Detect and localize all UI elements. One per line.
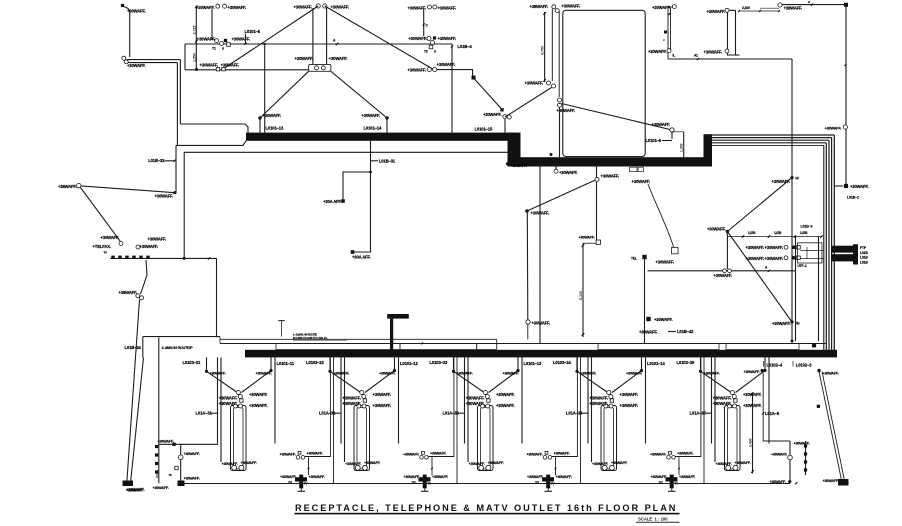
svg-text:+30WAFF.: +30WAFF.	[714, 273, 733, 278]
svg-text:L0101–6: L0101–6	[646, 138, 662, 143]
wire: fan line apex down to pair on y271	[726, 232, 728, 270]
svg-text:TEL: TEL	[631, 257, 637, 261]
svg-text:L01B–3: L01B–3	[801, 225, 813, 229]
junction square x846 y4.8	[844, 3, 848, 7]
svg-text:2,100: 2,100	[742, 6, 750, 10]
bay 5: left stub diagonal from wall	[700, 357, 702, 369]
svg-text:+30WAFF.: +30WAFF.	[648, 49, 667, 54]
svg-text:+30WAFF.: +30WAFF.	[744, 370, 761, 374]
svg-text:+30WAFF.: +30WAFF.	[184, 477, 201, 481]
bay 4: top outlet cluster circles	[607, 390, 611, 394]
outlet circle pair right end of T1 leg	[427, 67, 431, 71]
left panel ladder verticals	[158, 338, 160, 484]
svg-text:+30WAFF.: +30WAFF.	[704, 372, 721, 376]
svg-text:L01B–34: L01B–34	[125, 345, 142, 350]
wall D: multi-line vertical x824-834.5 y135-354	[833, 135, 835, 352]
FTP riser block solid bars from wall x831-853	[831, 246, 853, 253]
svg-text:+30WAFF.: +30WAFF.	[466, 395, 485, 400]
svg-text:+30WAFF.: +30WAFF.	[652, 122, 671, 127]
Y1 outlet cluster on y44 line	[215, 39, 219, 43]
svg-text:1,050: 1,050	[800, 231, 808, 235]
outlet circle pair top x429-435 y7	[428, 5, 432, 9]
svg-text:+30WAFF.: +30WAFF.	[127, 63, 146, 68]
svg-text:+30WAFF.: +30WAFF.	[249, 403, 268, 408]
wire: horizontal y145.4 from band A bottom to x176	[176, 141, 246, 146]
wire pair from left circles to verticals x177.4/180.4	[127, 59, 180, 61]
wall: bottom band E solid x245-837	[245, 350, 837, 358]
svg-text:+30WAFF.: +30WAFF.	[601, 174, 620, 179]
wire: left boundary vertical + slope	[142, 337, 144, 358]
svg-text:+30WAFF.: +30WAFF.	[232, 37, 251, 42]
tick A on y44 line	[336, 43, 339, 46]
svg-text:L0103–35: L0103–35	[677, 360, 695, 365]
svg-text:FF: FF	[796, 177, 800, 181]
gap 1: wire wall to baseline	[333, 357, 335, 483]
svg-text:+30WAFF.: +30WAFF.	[765, 245, 784, 250]
svg-text:TEL: TEL	[412, 481, 417, 485]
wire: T1 right leg apex to pair x429-434 y69.5	[325, 6, 434, 70]
dimension x752.5 y392-473 label 2400	[752, 392, 754, 473]
fan apex dot x727 y231.5	[726, 230, 729, 233]
outlet circle x672 y130	[670, 128, 674, 132]
wire: vertical pair from T1 apex to T2 box	[312, 8, 314, 64]
outlet circle x845 y127	[843, 125, 847, 129]
gap 2: L-wire from wall to circles	[429, 357, 454, 456]
svg-text:Y1: Y1	[212, 47, 216, 51]
svg-text:+30WAFF.: +30WAFF.	[525, 81, 544, 86]
svg-text:+30WAFF.: +30WAFF.	[620, 403, 639, 408]
wire: L to aircon outlet x343 y200	[343, 172, 371, 199]
wire: route line y336.6 x142-220	[143, 336, 220, 338]
svg-text:+30WAFF.: +30WAFF.	[404, 475, 421, 479]
svg-text:+30WAFF.: +30WAFF.	[532, 321, 551, 326]
svg-text:+30WAFF.: +30WAFF.	[823, 372, 840, 376]
telecom riser flag near x391 y315	[387, 314, 409, 319]
svg-text:+30WAFF.: +30WAFF.	[221, 62, 240, 67]
svg-text:+30WAFF.: +30WAFF.	[432, 475, 449, 479]
bay 4: room partition verticals	[587, 357, 589, 443]
svg-text:+30WAFF.: +30WAFF.	[511, 164, 528, 168]
svg-text:L01B–2: L01B–2	[847, 196, 859, 200]
wire: vertical x818.5 y236.5-341	[818, 237, 820, 342]
bay 3: bottom outlet circles	[479, 465, 484, 470]
svg-text:FTP: FTP	[860, 246, 867, 250]
bay 1: bottom outlet circles	[232, 465, 237, 470]
svg-text:+30WAFF.: +30WAFF.	[294, 5, 313, 10]
svg-text:+30WAFF.: +30WAFF.	[219, 395, 238, 400]
wire: horizontal net line y44 x185-452	[185, 43, 452, 45]
svg-text:+30WAFF.: +30WAFF.	[654, 317, 673, 322]
svg-text:UTP–1: UTP–1	[798, 264, 808, 268]
svg-text:L01B–42: L01B–42	[677, 329, 694, 334]
svg-text:4–8M/3 IN ROUTE/P: 4–8M/3 IN ROUTE/P	[162, 346, 194, 350]
svg-text:+30WAFF.: +30WAFF.	[559, 170, 578, 175]
gap 1: grounding tee below	[300, 488, 302, 491]
node B riser mark top-left	[121, 4, 124, 7]
svg-text:+30WAFF.: +30WAFF.	[554, 452, 571, 456]
Y2 outlet cluster	[427, 37, 431, 41]
wire: from pair right along y69.6 corner down to riser blob	[437, 70, 473, 76]
gap 4: outlet circle pair y457	[667, 456, 671, 460]
svg-text:+30WAFF.: +30WAFF.	[219, 401, 238, 406]
svg-text:+30WAFF.: +30WAFF.	[309, 475, 326, 479]
junction dot x527 y211 with diagonal to circle x597	[525, 209, 529, 213]
dimension x583 y243-337 label 5100	[583, 242, 596, 244]
gap 2: drop wire circles to TEL/TV	[431, 457, 433, 475]
svg-text:+30WAFF.: +30WAFF.	[527, 475, 544, 479]
outlet circle x79 y185.6	[77, 183, 81, 187]
bay 5: riser column double rectangle	[725, 406, 741, 471]
dimension x544.6 y12-82 label 4750	[544, 12, 546, 82]
svg-text:+30WAFF.: +30WAFF.	[746, 256, 765, 261]
wire: vertical x129.7 y11-57	[129, 11, 131, 57]
svg-text:+30WAFF.: +30WAFF.	[735, 461, 752, 465]
svg-text:+30WAFF.: +30WAFF.	[408, 68, 427, 73]
wire: long diagonal x139y298 to x126.5y483	[127, 300, 140, 483]
outlet circle pair triangle-1 apex	[316, 4, 320, 8]
svg-text:L0101–14: L0101–14	[647, 361, 665, 366]
svg-text:+30WAFF.: +30WAFF.	[295, 56, 314, 61]
svg-text:+30WAFF.: +30WAFF.	[153, 486, 170, 490]
wire: diagonal riser blob to junction x502 y110	[475, 79, 503, 110]
svg-text:+30WAFF.: +30WAFF.	[379, 372, 396, 376]
gap 3: wire wall to baseline	[580, 357, 582, 483]
outlet dot below band B x508	[506, 162, 509, 165]
junction square above band x814	[812, 343, 816, 347]
outlet circle below band B x556	[555, 167, 557, 170]
svg-text:+30WAFF.: +30WAFF.	[331, 5, 350, 10]
svg-text:L01B: L01B	[860, 260, 868, 264]
wire: vertical x763 y373-441 L to ladder	[763, 373, 790, 441]
right slope boundary diagonals	[817, 369, 820, 372]
TEL outlet square x644.5 y257	[642, 255, 646, 259]
svg-text:+30WAFF.: +30WAFF.	[713, 395, 732, 400]
svg-text:IN 2 IN/1 FLOOR TO 1 HR. FL.: IN 2 IN/1 FLOOR TO 1 HR. FL.	[293, 336, 328, 340]
svg-text:+30WAFF.: +30WAFF.	[639, 330, 658, 335]
bay 5: top outlet cluster circles	[730, 390, 734, 394]
svg-text:+30WAFF.: +30WAFF.	[364, 461, 381, 465]
gap 4: wire wall to baseline	[703, 357, 705, 483]
outlet circle x669 y50.7	[667, 49, 671, 53]
wire: T1 left leg apex to outlet pair at y69	[223, 6, 318, 69]
svg-text:+30WAFF.: +30WAFF.	[527, 452, 544, 456]
svg-text:+38WAFF.: +38WAFF.	[58, 184, 77, 189]
outlet circle pair top-left x218-225 y6	[216, 4, 220, 8]
wire: horizontal y59 x668-792	[668, 58, 792, 60]
svg-text:TEL: TEL	[288, 481, 293, 485]
wire: horizontal y124 into band A top	[180, 124, 248, 133]
svg-text:+30WAFF.: +30WAFF.	[626, 372, 643, 376]
outlet circle pair x548-553 y83-86	[547, 81, 551, 85]
svg-text:+30WAFF.: +30WAFF.	[140, 244, 159, 249]
right panel ladder	[789, 441, 791, 482]
wire: horizontal y270.8 x647.5-795.7	[648, 270, 796, 272]
left ladder squares	[155, 445, 158, 448]
svg-text:+30WAFF.: +30WAFF.	[707, 9, 726, 14]
wire: thin line y343.5 x220-826	[220, 343, 826, 345]
wire: vertical x370.5 band A to y172	[370, 141, 372, 172]
wire: shaft riser verticals x552.3 x559.2	[551, 9, 553, 81]
svg-text:+30WAFF.: +30WAFF.	[438, 6, 457, 11]
svg-text:+30WAFF.: +30WAFF.	[228, 5, 247, 10]
svg-text:+30WAFF.: +30WAFF.	[632, 179, 651, 184]
shaft room rectangle	[563, 10, 645, 156]
wire: vertical x527.5 down to lone circle	[526, 212, 529, 320]
outlet circle pair x559.5 y100-106	[558, 98, 562, 102]
riser bracket x727-736 y10-55	[728, 10, 736, 55]
svg-text:L01B–32: L01B–32	[148, 158, 165, 163]
wire: vertical x846 y5-184	[845, 5, 847, 184]
bay 2: right stub diagonal from wall	[394, 357, 396, 369]
tick on room line x422	[421, 342, 423, 344]
bay 4: right stub diagonal from wall	[641, 357, 643, 369]
wire: shallow diagonal to x174 dot	[81, 186, 175, 193]
wire: horizontal y4.6 x782-844 with C tick	[782, 4, 844, 6]
bay 5: bottom outlet circles	[726, 465, 731, 470]
TV outlet square x648 y319	[646, 317, 650, 321]
wall: step up at x704-712	[704, 134, 713, 166]
svg-text:+30WAFF.: +30WAFF.	[850, 184, 869, 189]
svg-text:L0101–5: L0101–5	[245, 29, 261, 34]
svg-text:L0103–33: L0103–33	[430, 360, 448, 365]
outlet dot right foot with drop to band A	[385, 116, 388, 119]
svg-text:+30WAFF.: +30WAFF.	[651, 475, 668, 479]
svg-text:+38WAFF.: +38WAFF.	[530, 4, 549, 9]
svg-text:+TELFAX.: +TELFAX.	[93, 244, 111, 249]
title underline	[295, 513, 680, 515]
svg-text:L0101–11: L0101–11	[277, 361, 295, 366]
wire: vertical x596.5 band B to outlet box y242	[596, 167, 598, 241]
svg-text:+30WAFF.: +30WAFF.	[466, 401, 485, 406]
outlet circle pair x139 y296	[136, 294, 140, 298]
svg-text:L0102–4: L0102–4	[767, 362, 783, 367]
wire: vertical x452 from y44 to band A	[451, 44, 453, 133]
junction square x846 y186 with labels	[844, 184, 848, 188]
svg-text:+30WAFF.: +30WAFF.	[210, 372, 227, 376]
bay 2: left stub diagonal from wall	[329, 357, 331, 369]
svg-text:+30WAFF.: +30WAFF.	[771, 453, 788, 457]
bay 2: top outlet cluster circles	[360, 390, 364, 394]
svg-text:+30WAFF.: +30WAFF.	[184, 452, 201, 456]
wire: vertical x644.5 y259-343.5	[644, 259, 646, 344]
bay 1: top outlet cluster circles	[236, 390, 240, 394]
svg-text:SCALE 1 : 100: SCALE 1 : 100	[638, 517, 668, 522]
svg-text:+30WAFF.: +30WAFF.	[556, 475, 573, 479]
outlet circle pair left x124 y58-62	[122, 56, 126, 60]
svg-text:72: 72	[169, 473, 173, 477]
svg-text:+30WAFF.: +30WAFF.	[241, 461, 258, 465]
bay 1: room partition verticals	[217, 357, 219, 443]
svg-text:+30WAFF.: +30WAFF.	[280, 475, 297, 479]
svg-text:PANEL: PANEL	[155, 469, 159, 478]
svg-text:+30WAFF.: +30WAFF.	[430, 452, 447, 456]
svg-text:+30WAFF.: +30WAFF.	[197, 37, 216, 42]
bay 3: right stub diagonal from wall	[517, 357, 519, 369]
svg-text:+30WAFF.: +30WAFF.	[589, 395, 608, 400]
wire: vertical x560 y108-157	[559, 108, 561, 158]
wire: vertical x212 from top pair to Y1	[211, 9, 213, 40]
svg-text:L01A–5: L01A–5	[765, 411, 780, 416]
svg-text:L0103–32: L0103–32	[306, 360, 324, 365]
svg-text:+30WAFF.: +30WAFF.	[679, 475, 696, 479]
svg-text:+30WAFF.: +30WAFF.	[307, 452, 324, 456]
svg-text:+30WAFF.: +30WAFF.	[438, 36, 457, 41]
wall: step down at x509	[508, 133, 521, 167]
svg-text:+30WAFF.: +30WAFF.	[158, 440, 175, 444]
svg-text:+39WAFF.: +39WAFF.	[119, 290, 138, 295]
bay 1: riser column double rectangle	[231, 406, 247, 471]
wire: bottom baseline y483.5 x178-790	[178, 483, 790, 485]
svg-text:+30WAFF.: +30WAFF.	[713, 401, 732, 406]
dimension x683.7 y132-157 label 1300	[671, 132, 673, 140]
wire: junction drop x264.7 to band A	[263, 43, 266, 46]
svg-text:+30WAFF.: +30WAFF.	[531, 211, 550, 216]
svg-text:+30WAFF.: +30WAFF.	[611, 461, 628, 465]
bay 3: left stub diagonal from wall	[453, 357, 455, 369]
small boxes under band B x630-643	[630, 167, 638, 171]
svg-text:L01B–31: L01B–31	[379, 159, 396, 164]
svg-text:+30A AFF.: +30A AFF.	[352, 255, 371, 260]
svg-text:RECEPTACLE, TELEPHONE & MATV O: RECEPTACLE, TELEPHONE & MATV OUTLET 16th…	[295, 503, 677, 513]
svg-text:3,725: 3,725	[192, 26, 196, 35]
gap 2: grounding tee below	[424, 488, 426, 491]
gap 2: outlet circle pair y457	[420, 456, 424, 460]
wall: top band A solid x246-515	[246, 133, 515, 141]
svg-text:L0101–14: L0101–14	[364, 126, 382, 131]
svg-text:L01B: L01B	[860, 251, 868, 255]
svg-text:+30WAFF.: +30WAFF.	[579, 236, 596, 240]
bay 2: room partition verticals	[340, 357, 342, 443]
svg-text:+30WAFF.: +30WAFF.	[101, 235, 120, 240]
gap 3: drop wire circles to TEL/TV	[555, 457, 557, 475]
svg-text:L0103–31: L0103–31	[183, 360, 201, 365]
svg-text:+30WAFF.: +30WAFF.	[707, 227, 726, 232]
svg-text:+30WAFF.: +30WAFF.	[677, 452, 694, 456]
svg-text:+30WAFF.: +30WAFF.	[222, 462, 239, 466]
bay 3: top outlet cluster circles	[483, 390, 487, 394]
svg-text:L01A–31: L01A–31	[196, 411, 213, 416]
note tick x281.5	[281, 321, 283, 337]
svg-text:L01B: L01B	[860, 256, 868, 260]
wire: long diagonal to circle x672 y130	[562, 104, 673, 131]
svg-text:TV: TV	[104, 251, 108, 255]
wire: diagonal from pair to junction x505 y117	[505, 88, 552, 118]
svg-text:+30WAFF.: +30WAFF.	[580, 372, 597, 376]
gap 3: grounding tee below	[547, 488, 549, 491]
ticks B1 on riser	[668, 13, 671, 16]
svg-text:+30WAFF.: +30WAFF.	[746, 245, 765, 250]
FTP riser block end cap	[853, 244, 858, 264]
dimension line x196 y6-70 labels 3725/1550	[195, 6, 197, 70]
svg-text:L0102–3: L0102–3	[796, 362, 812, 367]
label L01B-4 with tick	[451, 45, 453, 47]
outlet circle pair shaft top-left	[552, 5, 556, 9]
wire: cluster stubs into wall D	[801, 250, 825, 252]
svg-text:+30A AFF.: +30A AFF.	[323, 199, 342, 204]
svg-text:+30WAFF.: +30WAFF.	[823, 479, 840, 483]
wire: hook from cluster down to circle pair x139 y296	[141, 260, 148, 294]
svg-text:L0101–12: L0101–12	[400, 361, 418, 366]
multi-outlet cluster row x110-152 y247-260	[119, 241, 123, 245]
bay 4: left stub diagonal from wall	[576, 357, 578, 369]
svg-text:L01B–4: L01B–4	[458, 44, 473, 49]
wire: thin line y339.3 x220-497	[220, 338, 497, 340]
svg-text:+30WAFF.: +30WAFF.	[483, 112, 502, 117]
svg-text:5,100: 5,100	[579, 291, 583, 300]
svg-text:2,400: 2,400	[749, 438, 753, 447]
gap 4: grounding tee below	[671, 488, 673, 491]
gap 1: L-wire from wall to circles	[305, 357, 330, 456]
wire: fan line apex to FB dot	[727, 232, 792, 323]
svg-text:+30WAFF.: +30WAFF.	[562, 4, 581, 9]
wire: below-band line y152.3 x184-512	[184, 151, 512, 153]
wire: vertical x176 y145-193 with outlet dot	[175, 145, 177, 192]
svg-text:+30WAFF.: +30WAFF.	[403, 452, 420, 456]
svg-text:+30WAFF.: +30WAFF.	[155, 194, 174, 199]
junction square and circle pair x505 y117 with drop to band A	[500, 108, 503, 111]
svg-text:L0101–13: L0101–13	[266, 126, 284, 131]
wire: fan line apex to FF dot	[727, 178, 792, 232]
outlet circle lone x528 y322	[526, 320, 530, 324]
bay 4: riser column double rectangle	[601, 406, 617, 471]
kiosk room outline left: vertical x185 and bottom y69.8	[184, 44, 186, 70]
dimension row y236.5 x743-821 labels 1050	[727, 236, 821, 238]
svg-text:+30WAFF.: +30WAFF.	[589, 401, 608, 406]
left ladder circle and marks	[178, 455, 183, 460]
wire: vertical x370.5 y172-252 L to outlet	[354, 172, 371, 252]
bay 5: right stub diagonal from wall	[764, 357, 766, 369]
wall C: multi-line horizontal x708-834 y135-143	[708, 134, 834, 136]
outlet circle x674 y6.6 with double riser to y59	[672, 5, 676, 9]
svg-text:+30WAFF.: +30WAFF.	[280, 452, 297, 456]
cluster outline box	[798, 243, 823, 263]
svg-text:+30WAFF.: +30WAFF.	[373, 403, 392, 408]
junction dot on band B x551	[550, 153, 553, 156]
gap 3: outlet circle pair y457	[543, 456, 547, 460]
svg-text:+30WAFF.: +30WAFF.	[373, 392, 392, 397]
svg-text:1,050: 1,050	[748, 231, 756, 235]
svg-text:L0103–34: L0103–34	[553, 360, 571, 365]
wire: vertical x184 y152-258.5	[183, 152, 185, 258]
wire: vertical x795.5 from dim row to y341	[795, 237, 797, 342]
svg-text:+30WAFF.: +30WAFF.	[329, 56, 348, 61]
svg-text:IL: IL	[673, 54, 676, 58]
svg-text:+30WAFF.: +30WAFF.	[362, 113, 381, 118]
bay 4: bottom outlet circles	[602, 465, 607, 470]
svg-text:+30WAFF.: +30WAFF.	[148, 237, 167, 242]
svg-text:Y2: Y2	[424, 50, 428, 54]
svg-text:+30WAFF.: +30WAFF.	[716, 462, 733, 466]
svg-text:+30WAFF.: +30WAFF.	[126, 489, 143, 493]
svg-text:1,050: 1,050	[774, 231, 782, 235]
svg-text:+30WAFF.: +30WAFF.	[496, 403, 515, 408]
bay 3: room partition verticals	[464, 357, 466, 443]
svg-text:+30WAFF.: +30WAFF.	[345, 462, 362, 466]
bay 1: right stub diagonal from wall	[270, 357, 272, 369]
wire: vertical x792 y59-341	[791, 59, 793, 341]
wire: link y444 ladder to bay1	[159, 443, 218, 445]
svg-text:L0101–13: L0101–13	[524, 361, 542, 366]
wire: vertical x423.7 from top pair to Y2	[423, 9, 425, 36]
svg-text:+30WAFF.: +30WAFF.	[620, 392, 639, 397]
svg-text:+30WAFF.: +30WAFF.	[503, 372, 520, 376]
bay 1: left stub diagonal from wall	[206, 357, 208, 369]
gap 4: L-wire from wall to circles	[676, 357, 701, 456]
svg-text:4,750: 4,750	[541, 46, 545, 55]
svg-text:A1: A1	[694, 54, 698, 58]
gap 4: drop wire circles to TEL/TV	[678, 457, 680, 475]
bay 5: room partition verticals	[711, 357, 713, 443]
